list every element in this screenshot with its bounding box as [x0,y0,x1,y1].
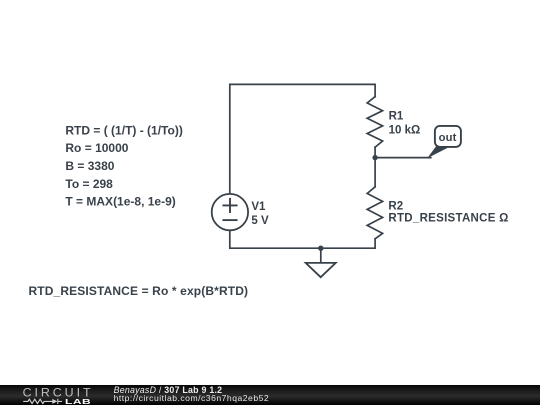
svg-text:out: out [439,132,457,144]
svg-text:5 V: 5 V [251,215,269,227]
wire top (V1 top to R1 top) [230,84,375,193]
wire node to R2 top [374,158,376,187]
wire bottom (V1 bottom to R2 bottom) [230,230,375,248]
junction node at ground [318,246,323,251]
footer bar [0,385,540,405]
voltage source V1 circle [212,194,248,230]
svg-text:R2: R2 [388,200,403,212]
junction node at R1/R2/out [372,155,377,160]
svg-text:RTD_RESISTANCE = Ro * exp(B*RT: RTD_RESISTANCE = Ro * exp(B*RTD) [29,284,249,298]
svg-text:LAB: LAB [65,398,91,405]
resistor R1 [367,97,382,148]
svg-text:V1: V1 [251,201,266,213]
svg-text:RTD = ( (1/T) - (1/To)): RTD = ( (1/T) - (1/To)) [65,123,182,137]
svg-text:Ro = 10000: Ro = 10000 [65,141,128,155]
out flag tail [427,146,450,158]
svg-text:B = 3380: B = 3380 [65,159,114,173]
out flag box [435,126,461,147]
ground symbol triangle [306,263,336,277]
svg-text:10 kΩ: 10 kΩ [389,125,421,137]
svg-text:R1: R1 [389,110,404,122]
CircuitLab logo [0,385,110,405]
footer caption text [114,385,223,395]
V1 plus sign [223,199,236,212]
resistor R2 [367,187,382,239]
ground stub wire [320,248,322,263]
svg-text:RTD_RESISTANCE Ω: RTD_RESISTANCE Ω [388,213,508,225]
wire R1 bottom to node [374,147,376,157]
wire node to out flag [375,157,431,159]
V1 minus sign [223,219,236,221]
svg-text:T = MAX(1e-8, 1e-9): T = MAX(1e-8, 1e-9) [65,195,175,209]
svg-text:To = 298: To = 298 [65,177,113,191]
